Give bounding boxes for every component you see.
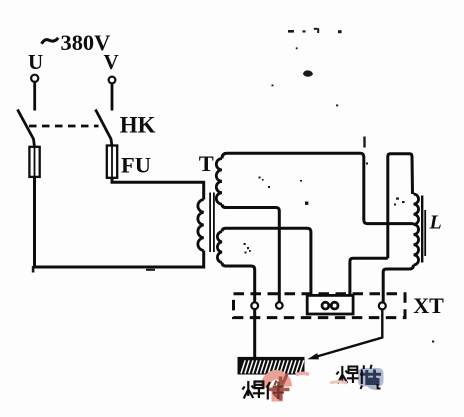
electrode arrowhead <box>308 353 320 359</box>
XT terminal 2 <box>276 302 283 309</box>
wire secondary top to right column <box>222 153 414 223</box>
label electrode holder 焊钳 <box>336 365 380 389</box>
red smudge right of workpiece <box>296 373 309 374</box>
XT terminal 1 <box>251 302 258 309</box>
wire V drop <box>111 84 114 111</box>
XT terminal 3 <box>379 302 386 309</box>
switch HK pole V blade <box>96 110 113 147</box>
svg-text:V: V <box>104 50 119 74</box>
svg-text:XT: XT <box>413 293 444 318</box>
wire L bottom to XT terminal 3 <box>383 265 413 303</box>
wire L feed to link block <box>350 258 388 295</box>
wire L feed column <box>388 154 413 258</box>
fuse FU (U phase) <box>29 147 39 177</box>
wire secondary tap1 to XT terminal 2 <box>222 204 279 302</box>
switch HK gang link (dashed) <box>29 125 99 128</box>
terminal U <box>31 75 38 82</box>
svg-text:FU: FU <box>121 152 151 177</box>
transformer T primary winding <box>198 200 204 251</box>
wire FU to transformer primary top <box>112 178 204 200</box>
terminal V <box>109 77 116 84</box>
scan speckles <box>32 28 434 343</box>
switch HK pole U blade <box>18 110 35 148</box>
transformer T secondary winding upper section <box>216 159 222 205</box>
pink smudge under first hanzi <box>330 382 347 383</box>
blue watermark blob <box>358 368 384 388</box>
link block on XT <box>307 295 353 314</box>
wire XT terminal 1 to workpiece <box>253 309 256 357</box>
transformer T core <box>210 193 214 253</box>
residual strokes of second hanzi under red <box>273 381 285 400</box>
label workpiece 焊件 <box>242 381 270 400</box>
red watermark blob <box>265 374 289 402</box>
wire U drop <box>33 83 36 111</box>
terminal strip XT (dashed outline) <box>234 294 406 318</box>
svg-text:L: L <box>429 211 442 233</box>
inductor L core <box>422 196 425 263</box>
wire secondary bottom to XT terminal 1 <box>222 263 255 303</box>
wire electrode lead from XT terminal 3 <box>313 310 382 358</box>
svg-text:U: U <box>28 50 43 74</box>
svg-text:T: T <box>199 151 214 176</box>
label ~380V supply <box>42 30 111 55</box>
transformer T secondary winding lower section <box>217 232 222 263</box>
workpiece (hatched block) <box>238 357 305 375</box>
svg-text:HK: HK <box>120 113 156 138</box>
inductor L winding <box>414 194 419 265</box>
wire U leg down and bottom return to transformer <box>35 177 204 267</box>
wire secondary tap2 to link block <box>222 228 311 295</box>
fuse FU (V phase) <box>107 146 117 179</box>
